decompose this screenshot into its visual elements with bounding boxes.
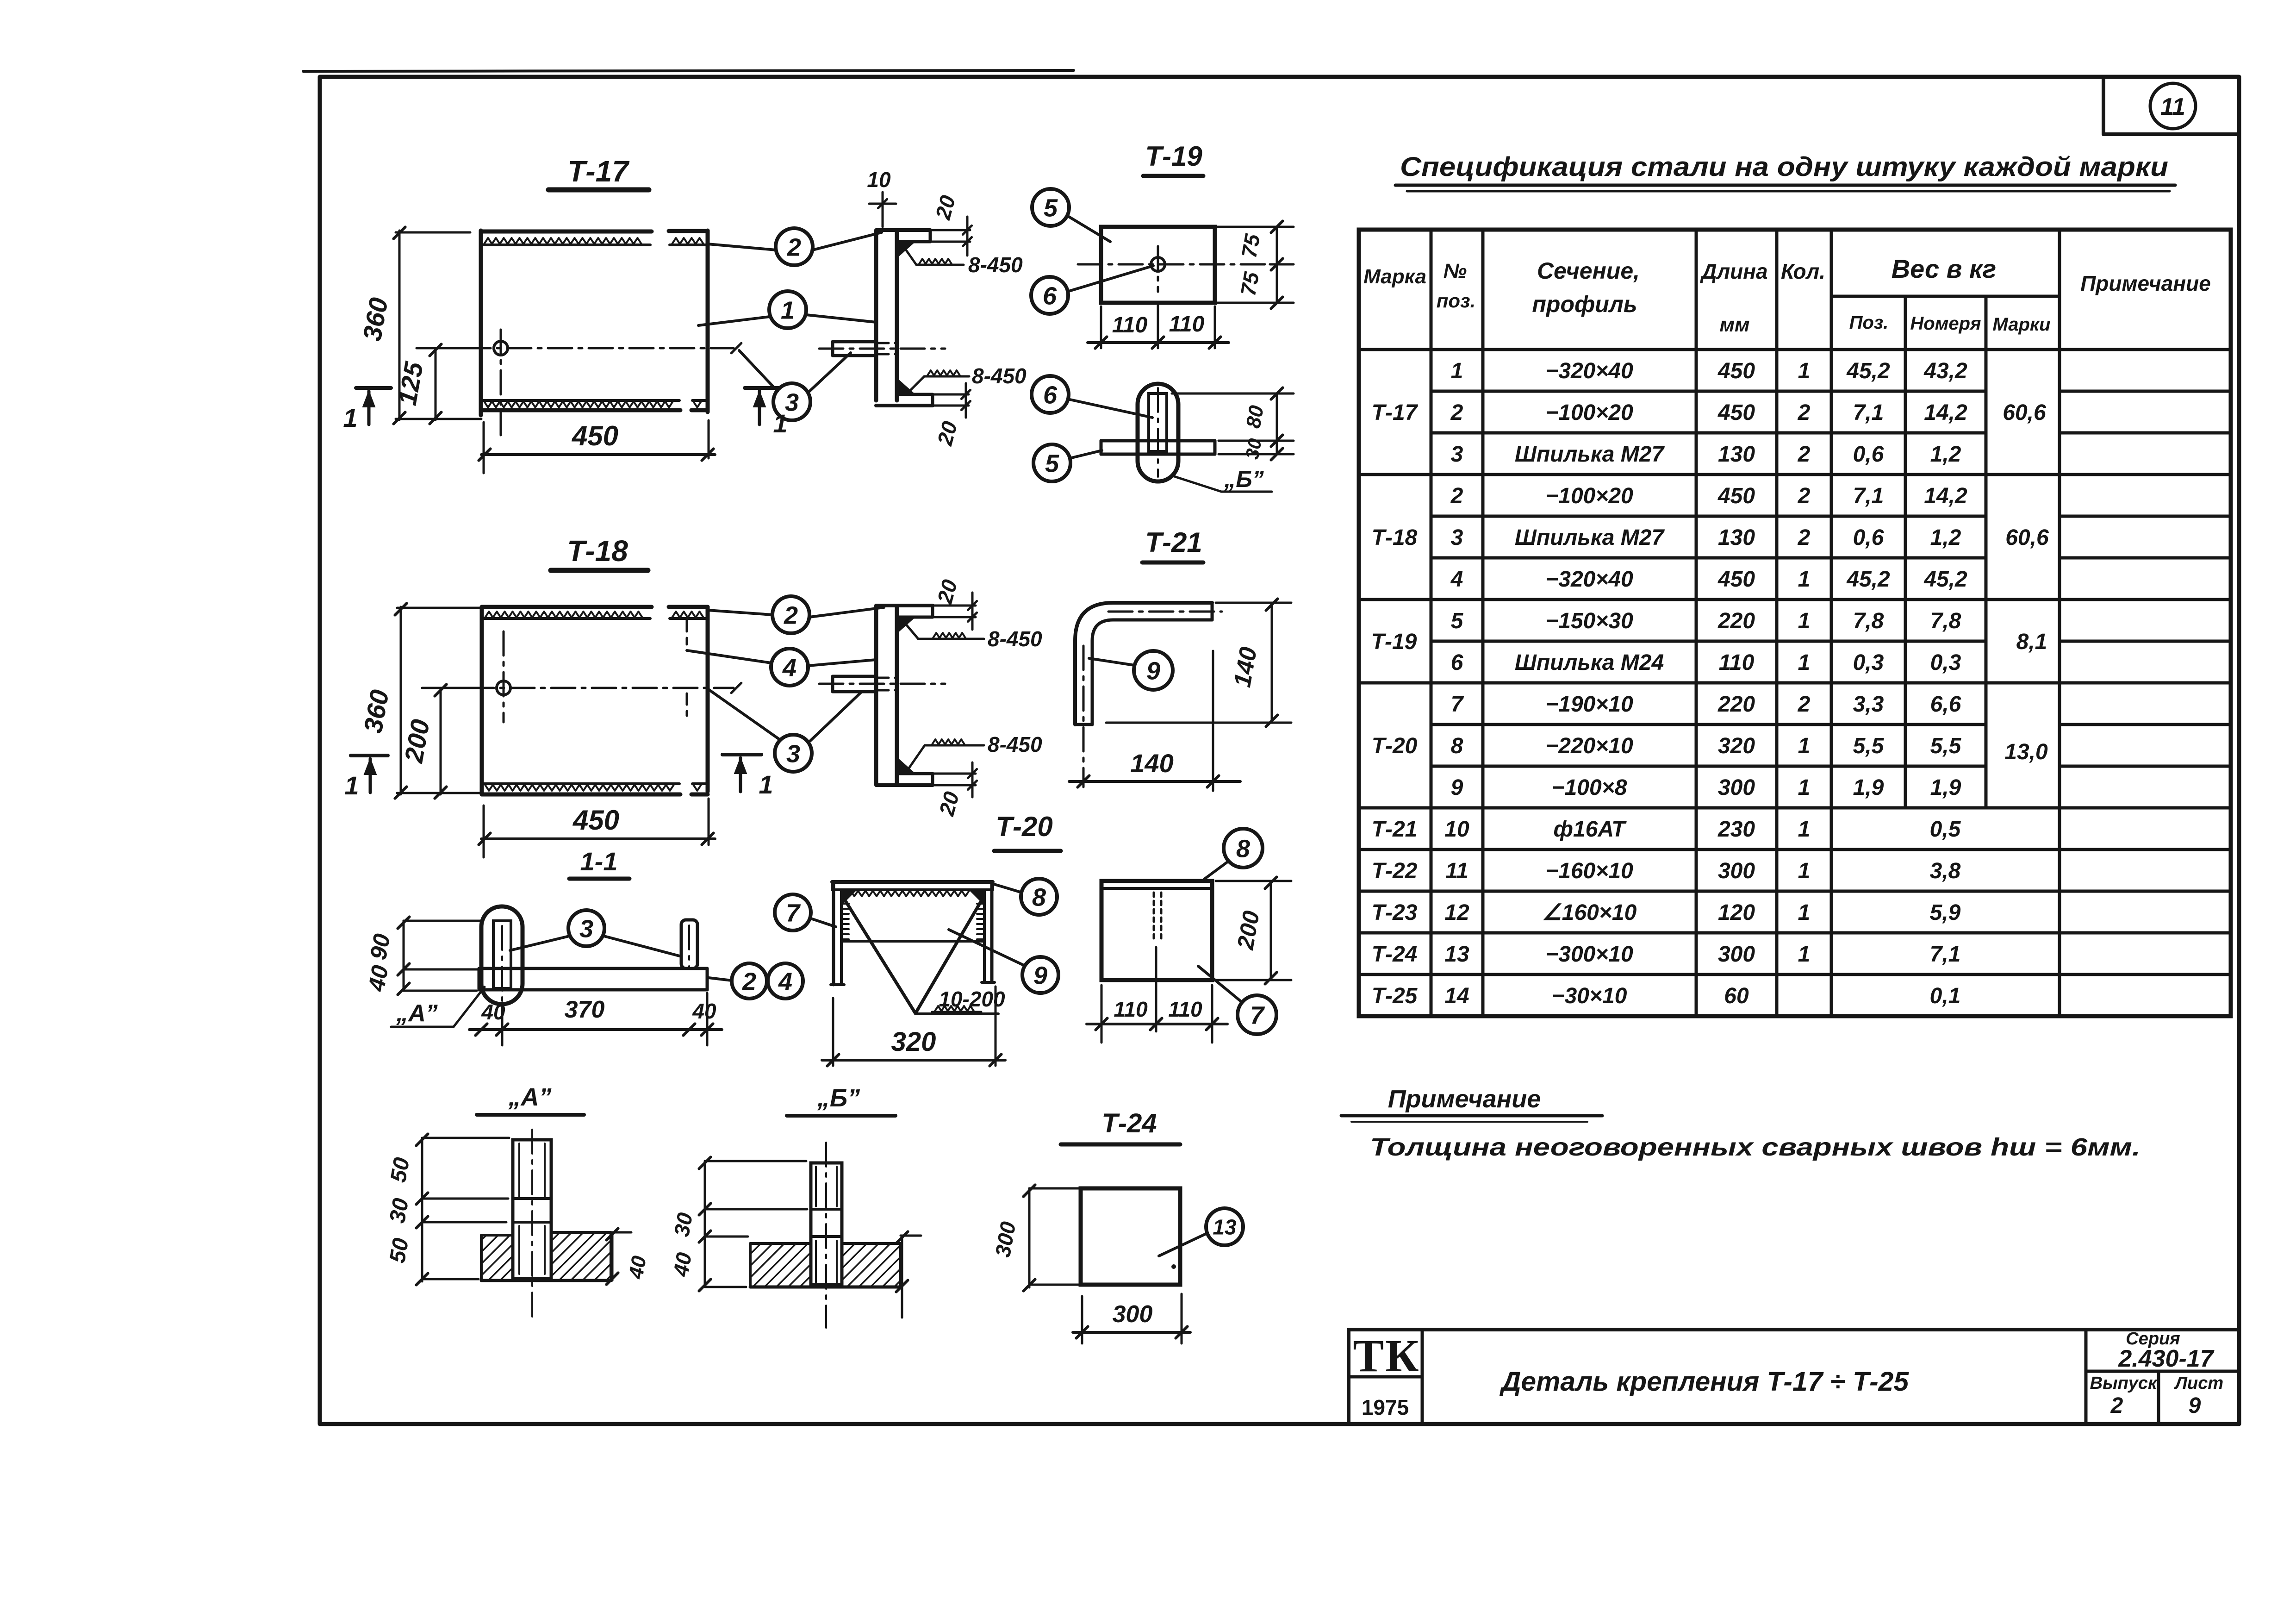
svg-text:7,8: 7,8: [1930, 609, 1961, 633]
svg-text:3,3: 3,3: [1853, 692, 1884, 717]
svg-text:7,1: 7,1: [1930, 942, 1961, 967]
svg-text:1: 1: [1798, 359, 1811, 383]
detail letter А with leader (section 1-1): [454, 987, 485, 1027]
T-17 weld seam bottom: [484, 401, 673, 407]
weld fillet top corner: [898, 243, 915, 257]
svg-text:Длина: Длина: [1699, 259, 1767, 283]
svg-text:14: 14: [1444, 984, 1469, 1008]
svg-text:450: 450: [1717, 484, 1755, 508]
svg-text:3: 3: [579, 915, 593, 943]
dimension 110 110 (T-19 width): [1088, 341, 1229, 344]
svg-text:мм: мм: [1719, 313, 1749, 336]
svg-text:3: 3: [785, 388, 799, 416]
section 1-1 plate pos.1 cut: [479, 967, 707, 970]
svg-text:Т-25: Т-25: [1372, 984, 1418, 1008]
svg-text:2: 2: [1450, 484, 1463, 508]
svg-text:9: 9: [1451, 775, 1463, 800]
svg-text:2: 2: [1798, 525, 1811, 550]
stud centre line vertical: [1157, 388, 1159, 477]
T-19 stud pos.6 end view outline: [1138, 384, 1178, 481]
svg-text:130: 130: [1718, 442, 1755, 467]
svg-text:30: 30: [385, 1196, 414, 1225]
svg-text:4: 4: [782, 654, 796, 681]
svg-text:−30×10: −30×10: [1552, 984, 1627, 1008]
T-17 side view bottom flange (pos.2): [876, 404, 933, 407]
svg-text:13,0: 13,0: [2004, 740, 2048, 764]
svg-text:2: 2: [784, 601, 798, 629]
T-17 stud hole: [494, 341, 508, 355]
svg-text:1975: 1975: [1362, 1395, 1409, 1419]
svg-text:5: 5: [1451, 609, 1464, 633]
detail А anchor bolt: [513, 1140, 551, 1279]
weld label 8-450 top: [903, 246, 916, 265]
svg-text:40: 40: [624, 1254, 651, 1281]
svg-text:8: 8: [1032, 883, 1046, 911]
svg-text:Марки: Марки: [1992, 314, 2050, 335]
T-21 bar centre lines: [1108, 611, 1222, 613]
T-19 stud hole: [1151, 257, 1165, 271]
svg-text:Т-21: Т-21: [1372, 817, 1418, 842]
svg-text:90: 90: [365, 932, 395, 962]
svg-text:−320×40: −320×40: [1545, 359, 1633, 383]
T-17 plate pos.1 plan outline: [479, 231, 483, 415]
svg-text:1: 1: [344, 771, 359, 800]
svg-text:1: 1: [1798, 609, 1811, 633]
svg-text:220: 220: [1717, 692, 1755, 717]
T-24 plate pos.13 outline: [1081, 1188, 1180, 1285]
dimension 90 40 (section 1-1): [403, 921, 405, 991]
svg-text:Шпилька М27: Шпилька М27: [1515, 525, 1665, 550]
callout 2 (T-18): [772, 596, 809, 633]
callout 3 (section 1-1): [568, 910, 604, 946]
T-21 bent bar pos.10 outline: [1075, 603, 1212, 725]
stud centre line: [819, 348, 945, 350]
T-18 hidden plate edge: [686, 620, 688, 644]
svg-text:110: 110: [1112, 313, 1148, 337]
T-18 hole centre line vertical: [503, 631, 505, 722]
section mark 1 left of T-17: [356, 386, 391, 390]
svg-text:−100×8: −100×8: [1552, 775, 1627, 800]
svg-text:75: 75: [1236, 269, 1263, 298]
svg-text:„А”: „А”: [396, 1000, 438, 1027]
svg-text:Т-18: Т-18: [567, 534, 628, 568]
detail А concrete block right: [551, 1232, 611, 1280]
svg-text:3: 3: [786, 740, 800, 768]
svg-text:30: 30: [669, 1211, 697, 1238]
svg-text:450: 450: [572, 420, 618, 451]
callout 7 (T-20 end): [1238, 995, 1276, 1034]
detail Б right gauge line: [901, 1236, 903, 1318]
svg-text:0,3: 0,3: [1930, 650, 1961, 675]
svg-text:0,1: 0,1: [1930, 984, 1961, 1008]
T-20 weld seam under top plate: [843, 891, 969, 896]
T-17 hole centre line vertical: [500, 330, 502, 437]
svg-text:1: 1: [1798, 859, 1811, 883]
svg-text:1,9: 1,9: [1930, 775, 1961, 800]
svg-text:Т-22: Т-22: [1372, 859, 1418, 883]
svg-text:5,9: 5,9: [1930, 900, 1961, 925]
dimension 80 30 (stud view): [1276, 394, 1278, 454]
title block outline: [1349, 1328, 2239, 1331]
dimension 140 vertical (T-21): [1271, 603, 1273, 723]
svg-text:2: 2: [1798, 484, 1811, 508]
svg-text:75: 75: [1237, 231, 1264, 260]
weld fillet bottom corner: [898, 379, 915, 394]
page number box: [2103, 77, 2239, 134]
svg-text:8,1: 8,1: [2016, 630, 2047, 654]
svg-text:Т-23: Т-23: [1372, 900, 1418, 925]
svg-text:6: 6: [1043, 381, 1058, 409]
T-20 cross bar line: [841, 940, 984, 943]
svg-text:110: 110: [1114, 997, 1148, 1021]
svg-text:2: 2: [1798, 692, 1811, 717]
callout 1 (T-17): [769, 291, 806, 328]
svg-text:1-1: 1-1: [580, 847, 618, 876]
stud slot stadium outline: [481, 906, 523, 1004]
T-20 top plate pos.8: [832, 880, 993, 884]
stud centre line (T-18): [819, 683, 945, 685]
svg-text:0,5: 0,5: [1930, 817, 1961, 842]
dimension 450 (T-17 length): [481, 453, 715, 456]
T-20 weld fillet left corner: [841, 890, 857, 906]
svg-text:Примечание: Примечание: [1388, 1085, 1541, 1113]
svg-text:1: 1: [1798, 650, 1811, 675]
section mark 1 left of T-18: [351, 754, 388, 757]
svg-text:Вес в кг: Вес в кг: [1892, 254, 1997, 283]
svg-text:5: 5: [1045, 450, 1059, 477]
spec table sub row lines: [1431, 390, 1986, 393]
callout 8 (T-20 end): [1224, 829, 1263, 868]
svg-text:−100×20: −100×20: [1545, 400, 1633, 425]
svg-text:12: 12: [1444, 900, 1469, 925]
sheet frame border: [320, 77, 2239, 1424]
weld label 8-450 top (T-18): [903, 621, 918, 639]
svg-text:2: 2: [742, 968, 756, 995]
T-18 plate pos.4 plan outline: [480, 607, 484, 794]
svg-text:1,2: 1,2: [1930, 442, 1961, 467]
svg-text:−100×20: −100×20: [1545, 484, 1633, 508]
svg-text:1: 1: [1798, 942, 1811, 967]
svg-text:3: 3: [1451, 442, 1463, 467]
svg-text:поз.: поз.: [1437, 290, 1475, 312]
detail А concrete block left: [481, 1235, 513, 1280]
callout 5 (T-19 plate): [1032, 189, 1069, 226]
T-17 centre line horizontal: [426, 347, 734, 350]
svg-text:110: 110: [1169, 312, 1205, 337]
T-17 side view web (pos.1 plate edge): [874, 231, 878, 400]
svg-text:Деталь крепления Т-17 ÷ Т-25: Деталь крепления Т-17 ÷ Т-25: [1499, 1367, 1909, 1397]
svg-text:4: 4: [778, 968, 792, 995]
svg-text:Т-17: Т-17: [1372, 400, 1419, 425]
svg-text:Т-18: Т-18: [1372, 525, 1418, 550]
svg-text:11: 11: [1445, 859, 1468, 883]
svg-text:230: 230: [1717, 817, 1755, 842]
svg-text:5,5: 5,5: [1930, 734, 1962, 758]
svg-text:60: 60: [1724, 984, 1749, 1008]
weld fillet top corner (T-18): [898, 618, 915, 633]
callout 4 (T-18): [771, 649, 808, 686]
dimension 360 (T-17 height): [398, 231, 401, 420]
T-20 end view top plate line: [1101, 887, 1212, 890]
svg-text:50: 50: [386, 1156, 415, 1184]
svg-text:110: 110: [1168, 997, 1202, 1021]
svg-text:9: 9: [1033, 962, 1047, 989]
svg-text:Т-20: Т-20: [1372, 734, 1418, 758]
svg-text:6: 6: [1451, 650, 1463, 675]
svg-text:13: 13: [1444, 942, 1469, 967]
svg-text:Т-20: Т-20: [996, 811, 1052, 842]
svg-text:450: 450: [1717, 400, 1755, 425]
dimension 125 (T-17 hole offset): [435, 348, 437, 420]
svg-text:8-450: 8-450: [972, 364, 1027, 388]
svg-text:6,6: 6,6: [1930, 692, 1961, 717]
svg-text:Спецификация стали на одну: Спецификация стали на одну штуку каждой …: [1400, 152, 2168, 182]
svg-text:Выпуск: Выпуск: [2090, 1374, 2158, 1393]
svg-text:1: 1: [759, 770, 773, 799]
svg-text:−320×40: −320×40: [1545, 567, 1633, 592]
svg-text:40: 40: [481, 1000, 505, 1024]
spec table column lines: [1430, 230, 1433, 1016]
detail Б concrete block right: [842, 1243, 901, 1287]
weld fillet bottom corner (T-18): [898, 758, 915, 773]
svg-text:14,2: 14,2: [1924, 400, 1967, 425]
T-20 right leg pos.7: [990, 884, 994, 982]
svg-text:2: 2: [787, 233, 801, 261]
svg-text:450: 450: [572, 805, 619, 836]
svg-text:„А”: „А”: [508, 1083, 552, 1111]
dimension 40 370 40 (section 1-1): [469, 1028, 722, 1031]
detail Б anchor bolt: [811, 1163, 842, 1285]
T-18 side view bottom flange (pos.2): [876, 783, 933, 787]
svg-text:ТК: ТК: [1353, 1330, 1420, 1381]
T-17 weld seam top (pos.2 plate edge): [484, 238, 641, 244]
T-18 stud plate (pos.3) side view: [833, 676, 876, 692]
svg-text:8: 8: [1236, 835, 1250, 862]
callout 6 (T-19 stud hole): [1031, 277, 1068, 314]
svg-text:9: 9: [1146, 657, 1160, 685]
svg-text:Марка: Марка: [1363, 265, 1426, 288]
detail А dimension 40: [611, 1232, 614, 1280]
T-20 end view centre line: [1155, 947, 1157, 1031]
svg-text:Шпилька М24: Шпилька М24: [1515, 650, 1664, 675]
stud hidden lines through web: [877, 342, 896, 344]
svg-text:1: 1: [1798, 817, 1811, 842]
svg-text:130: 130: [1718, 525, 1755, 550]
svg-text:11: 11: [2160, 94, 2185, 120]
callout 6 (stud view): [1032, 376, 1069, 413]
callout 3 (T-18): [775, 735, 812, 772]
svg-text:0,3: 0,3: [1853, 650, 1884, 675]
dimension 140 horizontal (T-21): [1212, 651, 1214, 791]
svg-text:5: 5: [1044, 194, 1058, 222]
dimension 300 horizontal (T-24): [1081, 1296, 1083, 1343]
svg-text:7: 7: [1250, 1001, 1265, 1029]
svg-text:1,2: 1,2: [1930, 525, 1961, 550]
svg-text:Примечание: Примечание: [2080, 271, 2211, 295]
svg-text:8-450: 8-450: [988, 627, 1042, 651]
T-18 side view web (pos.4 plate edge): [874, 607, 878, 784]
series cell: [2084, 1330, 2088, 1424]
svg-text:140: 140: [1130, 749, 1173, 778]
detail А dimension 50 30 50: [421, 1138, 423, 1281]
svg-text:Т-19: Т-19: [1145, 141, 1202, 172]
detail Б concrete block left: [750, 1243, 811, 1287]
svg-text:2: 2: [1798, 400, 1811, 425]
T-20 leg weld ticks right: [977, 903, 984, 905]
section mark 1 right of T-17: [745, 386, 780, 390]
callout 2 (T-17): [776, 228, 813, 265]
svg-text:−160×10: −160×10: [1545, 859, 1633, 883]
svg-text:300: 300: [1718, 859, 1755, 883]
svg-text:300: 300: [1113, 1301, 1153, 1328]
weld label 8-450 bottom: [909, 376, 924, 392]
svg-text:∠160×10: ∠160×10: [1542, 900, 1637, 925]
svg-text:300: 300: [1718, 775, 1755, 800]
svg-text:Т-21: Т-21: [1145, 527, 1202, 558]
svg-text:2: 2: [1798, 442, 1811, 467]
dimension 20 top flange: [930, 229, 970, 231]
T-20 weld fillet right corner: [969, 890, 984, 906]
detail letter Б with leader: [1173, 476, 1221, 492]
T-20 left leg pos.7: [832, 884, 835, 985]
dimension 320 (T-20): [832, 998, 834, 1066]
svg-text:1: 1: [1451, 359, 1463, 383]
svg-text:40: 40: [363, 963, 393, 994]
svg-text:45,2: 45,2: [1923, 567, 1967, 592]
T-18 side view top flange (pos.2): [876, 604, 933, 607]
svg-text:8: 8: [1451, 734, 1463, 758]
svg-text:„Б”: „Б”: [1224, 466, 1263, 492]
svg-text:220: 220: [1717, 609, 1755, 633]
T-18 weld seam bottom: [485, 785, 674, 791]
svg-text:450: 450: [1717, 359, 1755, 383]
svg-text:№: №: [1444, 260, 1467, 282]
dimension 20 bottom flange (T-18): [933, 773, 976, 775]
title block TK cell: [1421, 1330, 1424, 1424]
svg-text:Т-17: Т-17: [567, 155, 630, 188]
callout 2 (section 1-1): [732, 963, 767, 999]
svg-text:Кол.: Кол.: [1781, 259, 1825, 283]
left stud pos.3: [493, 921, 511, 988]
dimension 110 110 (T-20 end): [1087, 1023, 1227, 1025]
callout 7 (T-20 front): [775, 894, 811, 931]
dimension 450 (T-18 length): [481, 837, 715, 840]
svg-text:Т-24: Т-24: [1101, 1108, 1157, 1138]
svg-text:„Б”: „Б”: [817, 1084, 860, 1112]
svg-text:2.430-17: 2.430-17: [2118, 1345, 2214, 1372]
T-18 weld seam top: [485, 612, 642, 618]
svg-text:3,8: 3,8: [1930, 859, 1961, 883]
svg-text:1: 1: [1798, 775, 1811, 800]
spec table outer border: [1359, 230, 2231, 1016]
svg-text:120: 120: [1718, 900, 1755, 925]
dimension 300 vertical (T-24): [1028, 1188, 1031, 1287]
svg-text:3: 3: [1451, 525, 1463, 550]
svg-text:450: 450: [1717, 567, 1755, 592]
svg-text:43,2: 43,2: [1923, 359, 1967, 383]
svg-text:300: 300: [1718, 942, 1755, 967]
svg-text:370: 370: [565, 996, 605, 1023]
dimension 200 (T-18 hole offset): [440, 688, 442, 794]
svg-text:320: 320: [891, 1027, 936, 1057]
svg-text:−300×10: −300×10: [1545, 942, 1633, 967]
svg-text:Поз.: Поз.: [1849, 312, 1889, 333]
svg-text:1,9: 1,9: [1853, 775, 1884, 800]
callout 8 (T-20 front): [1021, 879, 1057, 915]
T-18 centre line horizontal: [429, 687, 734, 689]
svg-text:8-450: 8-450: [988, 732, 1042, 756]
callout 9 (T-21): [1134, 651, 1173, 690]
T-20 V-bar pos.9: [846, 902, 915, 1013]
T-19 washer plate pos.5 edge view: [1101, 439, 1215, 443]
T-20 leg weld ticks left: [841, 903, 849, 905]
svg-text:Сечение,: Сечение,: [1537, 258, 1640, 284]
svg-text:60,6: 60,6: [2003, 400, 2046, 425]
svg-text:2: 2: [1450, 400, 1463, 425]
svg-text:5,5: 5,5: [1853, 734, 1885, 758]
section mark 1 right of T-18: [722, 753, 761, 756]
svg-text:40: 40: [668, 1250, 696, 1279]
svg-text:Лист: Лист: [2174, 1374, 2223, 1393]
svg-text:7: 7: [1451, 692, 1464, 717]
dimension 20 bottom flange: [933, 394, 969, 396]
T-20 end view centre weld marks: [1153, 893, 1155, 939]
dimension 75 75 (T-19 height): [1276, 227, 1278, 303]
callout 5 (stud view): [1033, 444, 1070, 481]
svg-text:80: 80: [1242, 404, 1268, 430]
svg-text:Т-24: Т-24: [1372, 942, 1418, 967]
svg-text:ф16АТ: ф16АТ: [1554, 817, 1627, 842]
svg-text:320: 320: [1718, 734, 1755, 758]
dimension 20 top flange (T-18): [933, 605, 976, 607]
svg-text:Шпилька М27: Шпилька М27: [1515, 442, 1665, 467]
T-19 stud shank: [1149, 394, 1167, 451]
svg-text:1: 1: [343, 403, 357, 432]
svg-text:1: 1: [1798, 567, 1811, 592]
svg-text:Номеря: Номеря: [1910, 313, 1981, 334]
callout 13 (T-24): [1206, 1208, 1243, 1245]
svg-text:−190×10: −190×10: [1545, 692, 1633, 717]
svg-text:1: 1: [1798, 900, 1811, 925]
svg-text:−220×10: −220×10: [1545, 734, 1633, 758]
svg-text:40: 40: [692, 999, 716, 1023]
spec table group row lines: [1359, 473, 2231, 476]
dimension 360 (T-18 height): [400, 607, 402, 794]
T-17 stud plate (pos.3) side view: [833, 342, 876, 356]
callout 3 (T-17): [773, 383, 810, 420]
svg-text:1: 1: [1798, 734, 1811, 758]
T-17 side view top flange (pos.2): [876, 228, 930, 232]
callout 9 (T-20 front): [1022, 957, 1058, 993]
svg-text:7,1: 7,1: [1853, 400, 1884, 425]
svg-text:6: 6: [1043, 282, 1057, 310]
svg-text:7: 7: [786, 899, 801, 927]
T-19 plate pos.5 outline: [1101, 227, 1215, 303]
stud hidden lines through web (T-18): [877, 677, 896, 679]
svg-text:10: 10: [1444, 817, 1469, 842]
T-18 stud hole: [497, 681, 510, 695]
svg-text:Т-19: Т-19: [1371, 630, 1417, 654]
svg-text:Толщина неоговоренных сварны: Толщина неоговоренных сварных швов hш = …: [1370, 1133, 2140, 1161]
weld label 8-450 bottom (T-18): [908, 745, 925, 769]
svg-text:7,1: 7,1: [1853, 484, 1884, 508]
svg-text:60,6: 60,6: [2005, 525, 2049, 550]
svg-text:1: 1: [781, 296, 795, 324]
svg-text:13: 13: [1213, 1215, 1237, 1239]
detail Б dimension 30 40: [704, 1161, 706, 1287]
svg-text:10: 10: [867, 168, 891, 192]
svg-text:−150×30: −150×30: [1545, 609, 1633, 633]
